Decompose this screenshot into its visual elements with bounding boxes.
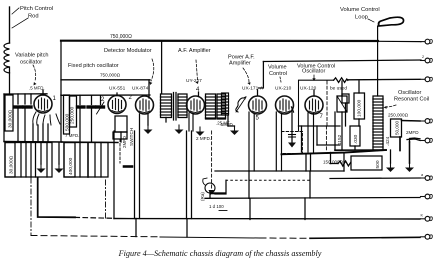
pitch antenna coupling coil L1 bbox=[4, 43, 10, 73]
wire top bus B+ bbox=[61, 40, 378, 42]
wire pair A2 bbox=[139, 114, 141, 219]
jack arrow bbox=[209, 190, 215, 195]
small component A bbox=[342, 94, 349, 103]
wire tube1 plate up bbox=[42, 90, 44, 95]
wire v310 upper bbox=[310, 154, 312, 171]
ground G2 under T1 bbox=[175, 125, 184, 134]
wire vco y145 bbox=[317, 144, 340, 146]
wire x61 down bbox=[60, 95, 62, 142]
coil L2 with arrow bbox=[236, 98, 244, 112]
wire V4 legs bbox=[188, 113, 190, 131]
wire dotted y180 bbox=[226, 179, 310, 181]
wire V3 cathode bbox=[147, 114, 149, 125]
svg-text:7 MFD.: 7 MFD. bbox=[65, 133, 79, 138]
resistor box R4 vertical bbox=[120, 132, 122, 142]
svg-text:750,000Ω: 750,000Ω bbox=[100, 73, 121, 78]
svg-text:Pitch Control: Pitch Control bbox=[20, 6, 53, 12]
leader detector bbox=[151, 59, 154, 81]
svg-text:150,000Ω: 150,000Ω bbox=[323, 160, 344, 165]
svg-text:SWITCH: SWITCH bbox=[129, 128, 134, 146]
wire R6 down bbox=[399, 137, 401, 151]
svg-text:250,000Ω: 250,000Ω bbox=[388, 113, 409, 118]
wire drop a bbox=[17, 94, 19, 104]
filament loops below tube V1 bbox=[33, 112, 60, 125]
wire cluster bottom bus bbox=[335, 149, 386, 151]
resistor R bus3 zigzag bbox=[334, 78, 348, 83]
wire top of osc2 block bbox=[61, 94, 150, 96]
resistor box R6 250000 bbox=[391, 119, 402, 137]
wire bus y238 dash bbox=[260, 237, 310, 239]
wire bus drop at x=61 bbox=[60, 41, 62, 95]
wire dashdot x105 bbox=[105, 180, 107, 218]
wire r11 internals bbox=[79, 143, 81, 178]
ground G8 bbox=[37, 164, 46, 173]
resistor box R10 bbox=[64, 143, 75, 178]
dashed lead V4 bbox=[211, 131, 213, 190]
wire pair A1 bbox=[134, 131, 136, 219]
wire w3 bottom bbox=[227, 115, 229, 126]
capacitor C6 under V7 bbox=[292, 107, 294, 112]
wire G6 stem bbox=[390, 150, 392, 163]
wire dashdot x31 bbox=[30, 178, 32, 236]
wire drop c bbox=[30, 94, 32, 104]
svg-text:30,000Ω: 30,000Ω bbox=[8, 109, 14, 128]
wire G7 stem bbox=[409, 142, 411, 163]
wire bus3 to terminal 3 bbox=[348, 78, 420, 81]
wire bus y219 bbox=[114, 218, 420, 221]
tube V4 bbox=[187, 96, 205, 114]
svg-text:.030: .030 bbox=[353, 134, 359, 144]
svg-text:Variable pitch: Variable pitch bbox=[15, 53, 48, 59]
svg-text:UX-874: UX-874 bbox=[132, 86, 149, 92]
terminal 7 bbox=[421, 194, 433, 199]
capacitor C5 trimmer bbox=[97, 105, 104, 108]
svg-text:Control: Control bbox=[269, 71, 287, 77]
wire bus y171 bbox=[215, 170, 344, 172]
wire rod coil to oscillator block bbox=[9, 67, 11, 94]
wire v187 low bbox=[186, 219, 188, 237]
wire drop b bbox=[24, 94, 26, 104]
svg-text:Oscillator: Oscillator bbox=[398, 90, 421, 96]
wire pair B2 bbox=[191, 131, 193, 219]
wire G8 stem bbox=[40, 143, 42, 164]
T2 winding P bbox=[206, 94, 216, 119]
wire v 250 low bbox=[249, 198, 251, 219]
svg-text:1 d 100: 1 d 100 bbox=[209, 204, 224, 209]
svg-text:Volume: Volume bbox=[268, 65, 287, 71]
wire drop d bbox=[79, 95, 81, 104]
T1 core bbox=[173, 93, 175, 121]
jack bar bbox=[211, 192, 225, 194]
wire bus y218 dashes bbox=[75, 216, 114, 219]
svg-text:.5 MFD.: .5 MFD. bbox=[29, 86, 45, 91]
svg-text:Volume Control: Volume Control bbox=[340, 7, 380, 13]
bank box bbox=[5, 143, 52, 178]
leader variable osc bbox=[33, 65, 36, 81]
ground G4 bbox=[230, 126, 239, 135]
winding box W3 bbox=[222, 93, 229, 115]
leader coil bbox=[386, 105, 396, 107]
wire G9 stem bbox=[58, 143, 60, 164]
wire vco dashed v326 bbox=[325, 126, 327, 152]
wire caps down bbox=[17, 109, 19, 142]
svg-text:oscillator: oscillator bbox=[20, 60, 42, 66]
wire bus3 bbox=[61, 79, 150, 81]
svg-text:.424: .424 bbox=[385, 136, 391, 146]
wire V6 top bbox=[313, 90, 315, 96]
volume control loop antenna bbox=[379, 17, 404, 26]
ground G6 bbox=[386, 163, 395, 172]
svg-text:UX-210: UX-210 bbox=[275, 86, 292, 92]
leader lines rod bbox=[12, 8, 28, 28]
wire caps down 2 bbox=[79, 109, 81, 142]
svg-text:Resonant Coil: Resonant Coil bbox=[394, 97, 429, 103]
resistor R7 zigzag bbox=[338, 161, 351, 166]
resistor box R2 bbox=[64, 95, 70, 134]
battery plate bbox=[124, 165, 132, 168]
wire V5 legs bbox=[248, 112, 250, 171]
svg-text:Oscillator: Oscillator bbox=[302, 69, 325, 75]
wire battery bbox=[113, 131, 115, 219]
svg-text:2 MFD.: 2 MFD. bbox=[196, 136, 211, 141]
svg-text:Detector Modulator: Detector Modulator bbox=[104, 48, 152, 54]
wire tube3 plate up bbox=[148, 80, 150, 98]
wire v306 bbox=[305, 154, 307, 171]
wire vco v301 bbox=[301, 126, 303, 152]
wire zigzag feed bbox=[330, 153, 332, 164]
capacitor box C8 bbox=[350, 126, 360, 146]
wire stub y210 bbox=[219, 210, 227, 212]
wire jack down bbox=[209, 193, 211, 198]
capacitor C4 bbox=[88, 105, 95, 108]
leader vc bbox=[280, 77, 281, 82]
wire bus y236 bbox=[31, 236, 160, 237]
svg-text:500: 500 bbox=[375, 160, 381, 168]
wire to terminal 5 bbox=[407, 139, 420, 141]
wire loops to bottom bbox=[32, 124, 34, 142]
wire V7 legs bbox=[275, 112, 277, 171]
thick wire from box bbox=[282, 150, 387, 154]
T2 winding S bbox=[217, 94, 226, 119]
tube V7 bbox=[276, 96, 294, 114]
wire V4 plate up bbox=[198, 92, 200, 97]
svg-text:2MFD: 2MFD bbox=[406, 130, 419, 135]
coil arrow bbox=[236, 97, 246, 112]
tube V6 bbox=[305, 96, 323, 114]
wire bus drop at x=161.6 bbox=[161, 41, 163, 93]
dashed stem bbox=[119, 139, 121, 163]
wire bus y237 solid bbox=[160, 237, 260, 238]
capacitor C1 bars bbox=[15, 105, 22, 108]
ground G3 under V4 bbox=[196, 127, 205, 136]
svg-text:30,000Ω: 30,000Ω bbox=[9, 155, 15, 174]
wire V6 legs bbox=[307, 113, 309, 152]
svg-text:400,000: 400,000 bbox=[68, 157, 74, 175]
tube V2 bbox=[108, 96, 126, 114]
wire inside box bbox=[326, 81, 328, 126]
pitch control rod antenna bbox=[9, 7, 11, 43]
svg-text:A.F. Amplifier: A.F. Amplifier bbox=[178, 48, 211, 54]
svg-text:(Ra): (Ra) bbox=[200, 192, 205, 201]
wire v136 low bbox=[135, 219, 137, 237]
ground G1 bbox=[144, 125, 153, 134]
svg-text:Amplifier: Amplifier bbox=[229, 61, 251, 67]
wire T1 bottom bbox=[165, 118, 167, 123]
wire left edge osc1 bbox=[3, 94, 5, 142]
wire R6 to terminal 4 bbox=[402, 120, 421, 123]
resistor box R5 bbox=[354, 93, 365, 119]
grid cap boxes below V2 bbox=[115, 116, 127, 132]
terminal 5 bbox=[421, 138, 433, 143]
wire v 305 bbox=[304, 198, 306, 220]
leader power af bbox=[243, 68, 249, 82]
box R11 bbox=[64, 143, 108, 178]
wire v 310 bbox=[309, 171, 311, 198]
resistor box R1 30000 bbox=[5, 95, 13, 131]
wire step bbox=[215, 180, 226, 194]
wire box drop bbox=[343, 153, 345, 171]
wire bus2 drop to V5 plate bbox=[259, 62, 264, 89]
svg-text:750,000Ω: 750,000Ω bbox=[110, 34, 132, 40]
wire vco bus y126 bbox=[299, 125, 341, 127]
wire bus y238 to terminal 9 bbox=[310, 237, 420, 238]
tube V3 bbox=[136, 96, 154, 114]
ground G7 bbox=[405, 163, 414, 172]
svg-text:Loop: Loop bbox=[355, 15, 368, 21]
arrow inside bbox=[291, 132, 293, 143]
terminal 4 bbox=[421, 119, 433, 124]
wire bus y178 right bbox=[330, 177, 420, 180]
svg-text:be used: be used bbox=[330, 86, 347, 92]
wire to R7 bbox=[330, 163, 338, 165]
svg-text:UX-171-A: UX-171-A bbox=[242, 86, 264, 92]
svg-text:1152: 1152 bbox=[337, 134, 343, 145]
wire bottom bus osc1 bbox=[4, 141, 62, 144]
leader loop bbox=[368, 19, 374, 22]
terminal 6 bbox=[421, 176, 433, 181]
wire V5 plate up bbox=[257, 90, 259, 96]
tube V1 oscillator bbox=[34, 95, 52, 113]
svg-text:Rod: Rod bbox=[28, 14, 39, 20]
resistor box R9 vertical text bbox=[5, 143, 15, 178]
svg-text:Fixed pitch oscillator: Fixed pitch oscillator bbox=[68, 63, 119, 69]
wire top of osc1 block bbox=[4, 93, 47, 95]
svg-text:50,000: 50,000 bbox=[395, 121, 400, 135]
bank internal wires bbox=[20, 143, 22, 178]
wire bus2 to terminal 2 bbox=[263, 60, 421, 62]
svg-text:2MFD: 2MFD bbox=[122, 136, 127, 148]
oscillator resonant coil L3 bbox=[373, 96, 383, 150]
capacitor C2 bars bbox=[24, 105, 31, 108]
svg-text:2: 2 bbox=[422, 55, 424, 59]
dashed box bbox=[282, 132, 303, 154]
wire bottom bus osc2 bbox=[62, 141, 118, 144]
wire L drop thick bbox=[38, 178, 75, 217]
wire v 249 bbox=[248, 171, 250, 198]
terminal 8 bbox=[421, 216, 433, 221]
jack J1 bbox=[205, 183, 215, 193]
terminal 1 bbox=[421, 39, 433, 44]
tube V5 bbox=[249, 96, 267, 114]
trimmer arrow bbox=[97, 102, 105, 114]
ground G9 bbox=[55, 164, 64, 173]
terminal 3 bbox=[421, 77, 433, 82]
svg-text:UY-227: UY-227 bbox=[186, 78, 202, 84]
leader AF amp bbox=[196, 60, 198, 80]
T1 winding P bbox=[161, 94, 172, 118]
svg-text:Figure 4—Schematic chassis dia: Figure 4—Schematic chassis diagram of th… bbox=[118, 249, 322, 258]
terminal 9 bbox=[421, 234, 433, 239]
T1 winding S bbox=[178, 94, 187, 118]
wire bus y198 bbox=[205, 197, 420, 200]
switch box S1 bbox=[113, 132, 127, 139]
wire vco v317 bbox=[316, 126, 318, 145]
wire loop antenna down bbox=[377, 26, 379, 96]
leader vco bbox=[313, 75, 315, 79]
wire pair B1 bbox=[186, 131, 188, 219]
svg-text:UX-551: UX-551 bbox=[109, 86, 126, 92]
terminal 2 bbox=[421, 58, 433, 63]
svg-text:UX-120: UX-120 bbox=[300, 86, 317, 92]
resistor box R3 bbox=[70, 96, 77, 127]
svg-text:100,000: 100,000 bbox=[357, 99, 363, 117]
wire hook to terminal 5b bbox=[410, 138, 421, 142]
wire tube2 top bbox=[116, 93, 118, 96]
capacitor C3 bbox=[78, 105, 85, 108]
potentiometer box R8 bbox=[351, 156, 382, 170]
box outline bbox=[299, 80, 334, 131]
svg-text:250,000: 250,000 bbox=[70, 106, 76, 124]
wire bus to terminal 1 bbox=[378, 40, 421, 42]
wire cluster left edge bbox=[334, 112, 336, 150]
capacitor block C7 bbox=[337, 96, 347, 112]
